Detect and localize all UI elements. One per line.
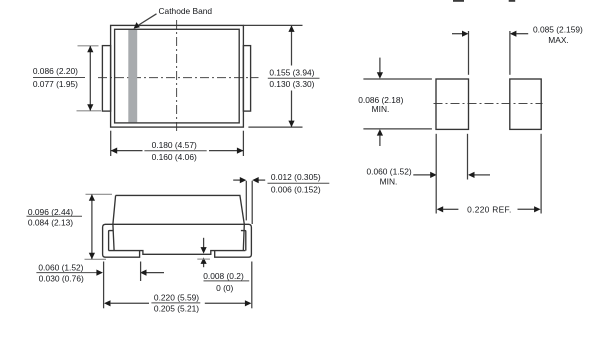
top view: package body inner outline [115, 29, 240, 123]
svg-text:Cathode Band: Cathode Band [159, 6, 213, 16]
svg-text:0.085 (2.159): 0.085 (2.159) [533, 25, 583, 35]
dimension 0.155/0.130 dimension line [291, 26, 293, 66]
overall width dimension 0.220/0.205 dimension line [104, 300, 111, 306]
lead foot dimension: outside arrow at lead tip [140, 270, 147, 276]
extension line at right lead outer edge [251, 262, 253, 309]
dimension 0.012/0.006 (lead thickness) extension lines [245, 181, 247, 221]
fraction bar extending into leader arrow [36, 272, 96, 274]
dimension 0.180/0.160 (body width) extension lines [110, 131, 112, 156]
pad gap dimension 0.085 (2.159) MAX: extension lines [468, 31, 470, 75]
top view: left terminal tab [102, 46, 110, 112]
svg-text:0.180 (4.57): 0.180 (4.57) [152, 140, 197, 150]
svg-text:0.220 (5.59): 0.220 (5.59) [154, 293, 199, 303]
top view: right terminal tab [243, 46, 250, 112]
top view: package body outer outline [111, 25, 244, 127]
svg-text:0.008 (0.2): 0.008 (0.2) [203, 271, 244, 281]
svg-text:0.160 (4.06): 0.160 (4.06) [152, 152, 197, 162]
land pattern: centerline [434, 103, 543, 105]
top view: cathode band (gray) [128, 30, 137, 123]
svg-text:0.096 (2.44): 0.096 (2.44) [28, 207, 73, 217]
dimension 0.012/0.006 arrows [233, 179, 240, 181]
side view: mold seam line [105, 223, 248, 225]
pad gap dimension arrows [452, 33, 462, 35]
pad width dimension: leader arrow to left pad edge [413, 174, 430, 176]
dimension 0.155/0.130 (body height) extension lines [243, 24, 302, 26]
extension line at left lead outer edge [103, 262, 105, 309]
svg-text:0.205 (5.21): 0.205 (5.21) [154, 304, 199, 314]
standoff dimension: up arrow [203, 262, 205, 267]
svg-text:MAX.: MAX. [548, 35, 568, 45]
side view: right lead inner contour [241, 231, 246, 251]
side view: left lead outer contour [103, 224, 140, 257]
side view: body bottom edge lines [109, 251, 246, 255]
side view: body outline (trapezoid top + lower sides + bottom) [113, 195, 244, 250]
cut-off heading text remnants at top [453, 0, 515, 2]
dimension 0.096/0.084 (body height) ticks [86, 193, 113, 195]
standoff seating plane tick [197, 258, 210, 260]
leader arrowhead [134, 22, 140, 29]
side view: right lead outer contour [215, 224, 252, 257]
svg-text:MIN.: MIN. [372, 104, 390, 114]
leader line to cathode band [136, 14, 157, 27]
svg-text:0.084 (2.13): 0.084 (2.13) [28, 218, 73, 228]
overall land dimension 0.220 REF. [437, 206, 444, 212]
top view: horizontal centerline [98, 77, 259, 79]
svg-text:0 (0): 0 (0) [216, 283, 233, 293]
extension line at left lead tip [140, 262, 142, 282]
svg-text:0.086 (2.20): 0.086 (2.20) [33, 66, 78, 76]
svg-text:0.060 (1.52): 0.060 (1.52) [38, 263, 83, 273]
dimension 0.086/0.077 dimension line [89, 46, 91, 111]
land pattern extension lines below pads [435, 134, 437, 214]
svg-text:0.077 (1.95): 0.077 (1.95) [33, 79, 78, 89]
top view: vertical centerline [176, 20, 178, 131]
pad width dimension: outside arrow at pad right edge [468, 172, 475, 178]
land pattern: left pad [436, 79, 469, 129]
side view: left lead inner contour [109, 231, 114, 251]
pad height dimension 0.086 (2.18) MIN: extension lines [363, 78, 432, 80]
standoff dimension 0.008/0(0): down arrow [203, 238, 205, 249]
svg-text:0.012 (0.305): 0.012 (0.305) [271, 172, 321, 182]
svg-text:0.030 (0.76): 0.030 (0.76) [39, 274, 84, 284]
svg-text:MIN.: MIN. [380, 176, 398, 186]
svg-text:0.060 (1.52): 0.060 (1.52) [367, 166, 412, 176]
pad height dimension arrows [379, 58, 381, 73]
land pattern: right pad [510, 79, 541, 129]
svg-text:0.006 (0.152): 0.006 (0.152) [271, 184, 321, 194]
svg-text:0.220 REF.: 0.220 REF. [467, 204, 511, 214]
dimension 0.096/0.084 dimension line [91, 195, 93, 260]
dimension 0.086/0.077 (tab width) ticks [78, 45, 99, 47]
dimension 0.180/0.160 dimension line with outward arrows [111, 150, 143, 152]
svg-text:0.130 (3.30): 0.130 (3.30) [269, 79, 314, 89]
svg-text:0.155 (3.94): 0.155 (3.94) [269, 68, 314, 78]
